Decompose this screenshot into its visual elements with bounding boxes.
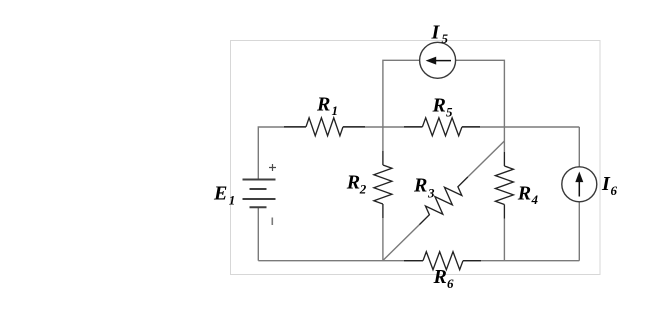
svg-text:6: 6 <box>447 276 454 291</box>
wire <box>383 225 420 261</box>
svg-text:R: R <box>517 182 531 204</box>
svg-text:R: R <box>346 172 360 194</box>
label R5 <box>432 95 454 120</box>
svg-text:2: 2 <box>359 182 367 197</box>
wire <box>578 202 580 261</box>
wire <box>463 260 579 262</box>
resistor R2 <box>374 151 392 218</box>
svg-text:3: 3 <box>427 186 435 201</box>
label R4 <box>517 182 539 207</box>
wire <box>468 141 505 177</box>
wire <box>503 127 505 152</box>
svg-text:R: R <box>316 94 330 116</box>
svg-text:6: 6 <box>611 183 618 198</box>
svg-text:5: 5 <box>442 31 449 46</box>
wire <box>257 207 259 261</box>
I5 arrow <box>426 57 451 65</box>
label I6 <box>601 173 618 198</box>
label E1 <box>213 183 235 208</box>
label R6 <box>433 266 455 291</box>
current source I5 <box>420 42 456 78</box>
label R2 <box>346 172 367 197</box>
resistor R5 <box>404 118 480 136</box>
wire <box>343 126 422 128</box>
wire <box>503 219 505 261</box>
svg-text:4: 4 <box>531 192 539 207</box>
wire <box>258 260 423 262</box>
battery minus sign <box>272 218 274 226</box>
battery plus sign <box>269 164 276 171</box>
svg-text:R: R <box>413 175 427 197</box>
svg-text:I: I <box>431 22 441 44</box>
svg-text:1: 1 <box>332 103 339 118</box>
battery E1 <box>243 180 276 208</box>
current source I6 <box>562 167 597 202</box>
svg-text:1: 1 <box>229 193 236 208</box>
wire <box>258 127 306 180</box>
resistor R4 <box>495 152 513 219</box>
label R3 <box>413 175 435 201</box>
wire <box>456 60 505 127</box>
wire <box>462 126 579 128</box>
I6 arrow <box>575 172 583 197</box>
svg-text:I: I <box>601 173 611 195</box>
wire <box>382 127 384 151</box>
svg-text:R: R <box>432 95 446 117</box>
svg-text:E: E <box>213 183 227 205</box>
resistor R6 <box>404 252 481 270</box>
resistor R3 <box>419 177 468 225</box>
label R1 <box>316 94 338 119</box>
wire <box>578 127 580 167</box>
label I5 <box>431 22 449 47</box>
svg-text:R: R <box>433 266 447 288</box>
resistor R1 <box>284 118 365 136</box>
svg-text:5: 5 <box>446 105 453 120</box>
wire <box>383 60 420 127</box>
wire <box>382 218 384 261</box>
